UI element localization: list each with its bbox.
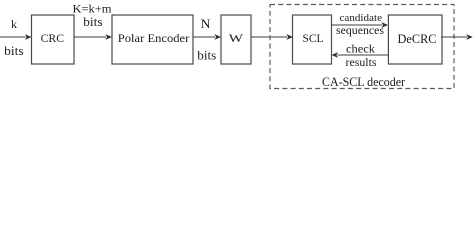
wire DeCRC to SCL (check results) <box>332 52 389 58</box>
wire SCL to DeCRC (candidate sequences) <box>332 22 389 28</box>
svg-text:Polar Encoder: Polar Encoder <box>118 33 190 45</box>
block DeCRC <box>388 15 442 64</box>
dashed box CA-SCL decoder <box>270 5 454 89</box>
svg-text:candidate: candidate <box>340 12 383 24</box>
wire output arrow <box>441 34 473 40</box>
block W <box>221 15 251 64</box>
svg-text:check: check <box>346 44 375 56</box>
svg-text:N: N <box>201 17 211 31</box>
svg-text:k: k <box>11 17 17 31</box>
wire input arrow <box>0 34 32 40</box>
block SCL <box>293 15 332 64</box>
svg-text:W: W <box>229 31 244 45</box>
svg-text:results: results <box>346 57 378 69</box>
block CRC <box>32 15 75 64</box>
svg-text:CA-SCL decoder: CA-SCL decoder <box>322 74 406 89</box>
svg-text:bits: bits <box>4 44 24 58</box>
wire Polar Encoder to W <box>193 34 221 40</box>
svg-text:sequences: sequences <box>336 25 385 37</box>
block Polar Encoder <box>112 15 193 64</box>
wire CRC to Polar Encoder <box>74 34 112 40</box>
wire W to SCL <box>251 34 293 40</box>
svg-text:bits: bits <box>197 48 216 62</box>
svg-text:CRC: CRC <box>41 33 65 45</box>
svg-text:DeCRC: DeCRC <box>398 32 437 46</box>
svg-text:SCL: SCL <box>303 33 324 45</box>
svg-text:bits: bits <box>83 14 102 29</box>
